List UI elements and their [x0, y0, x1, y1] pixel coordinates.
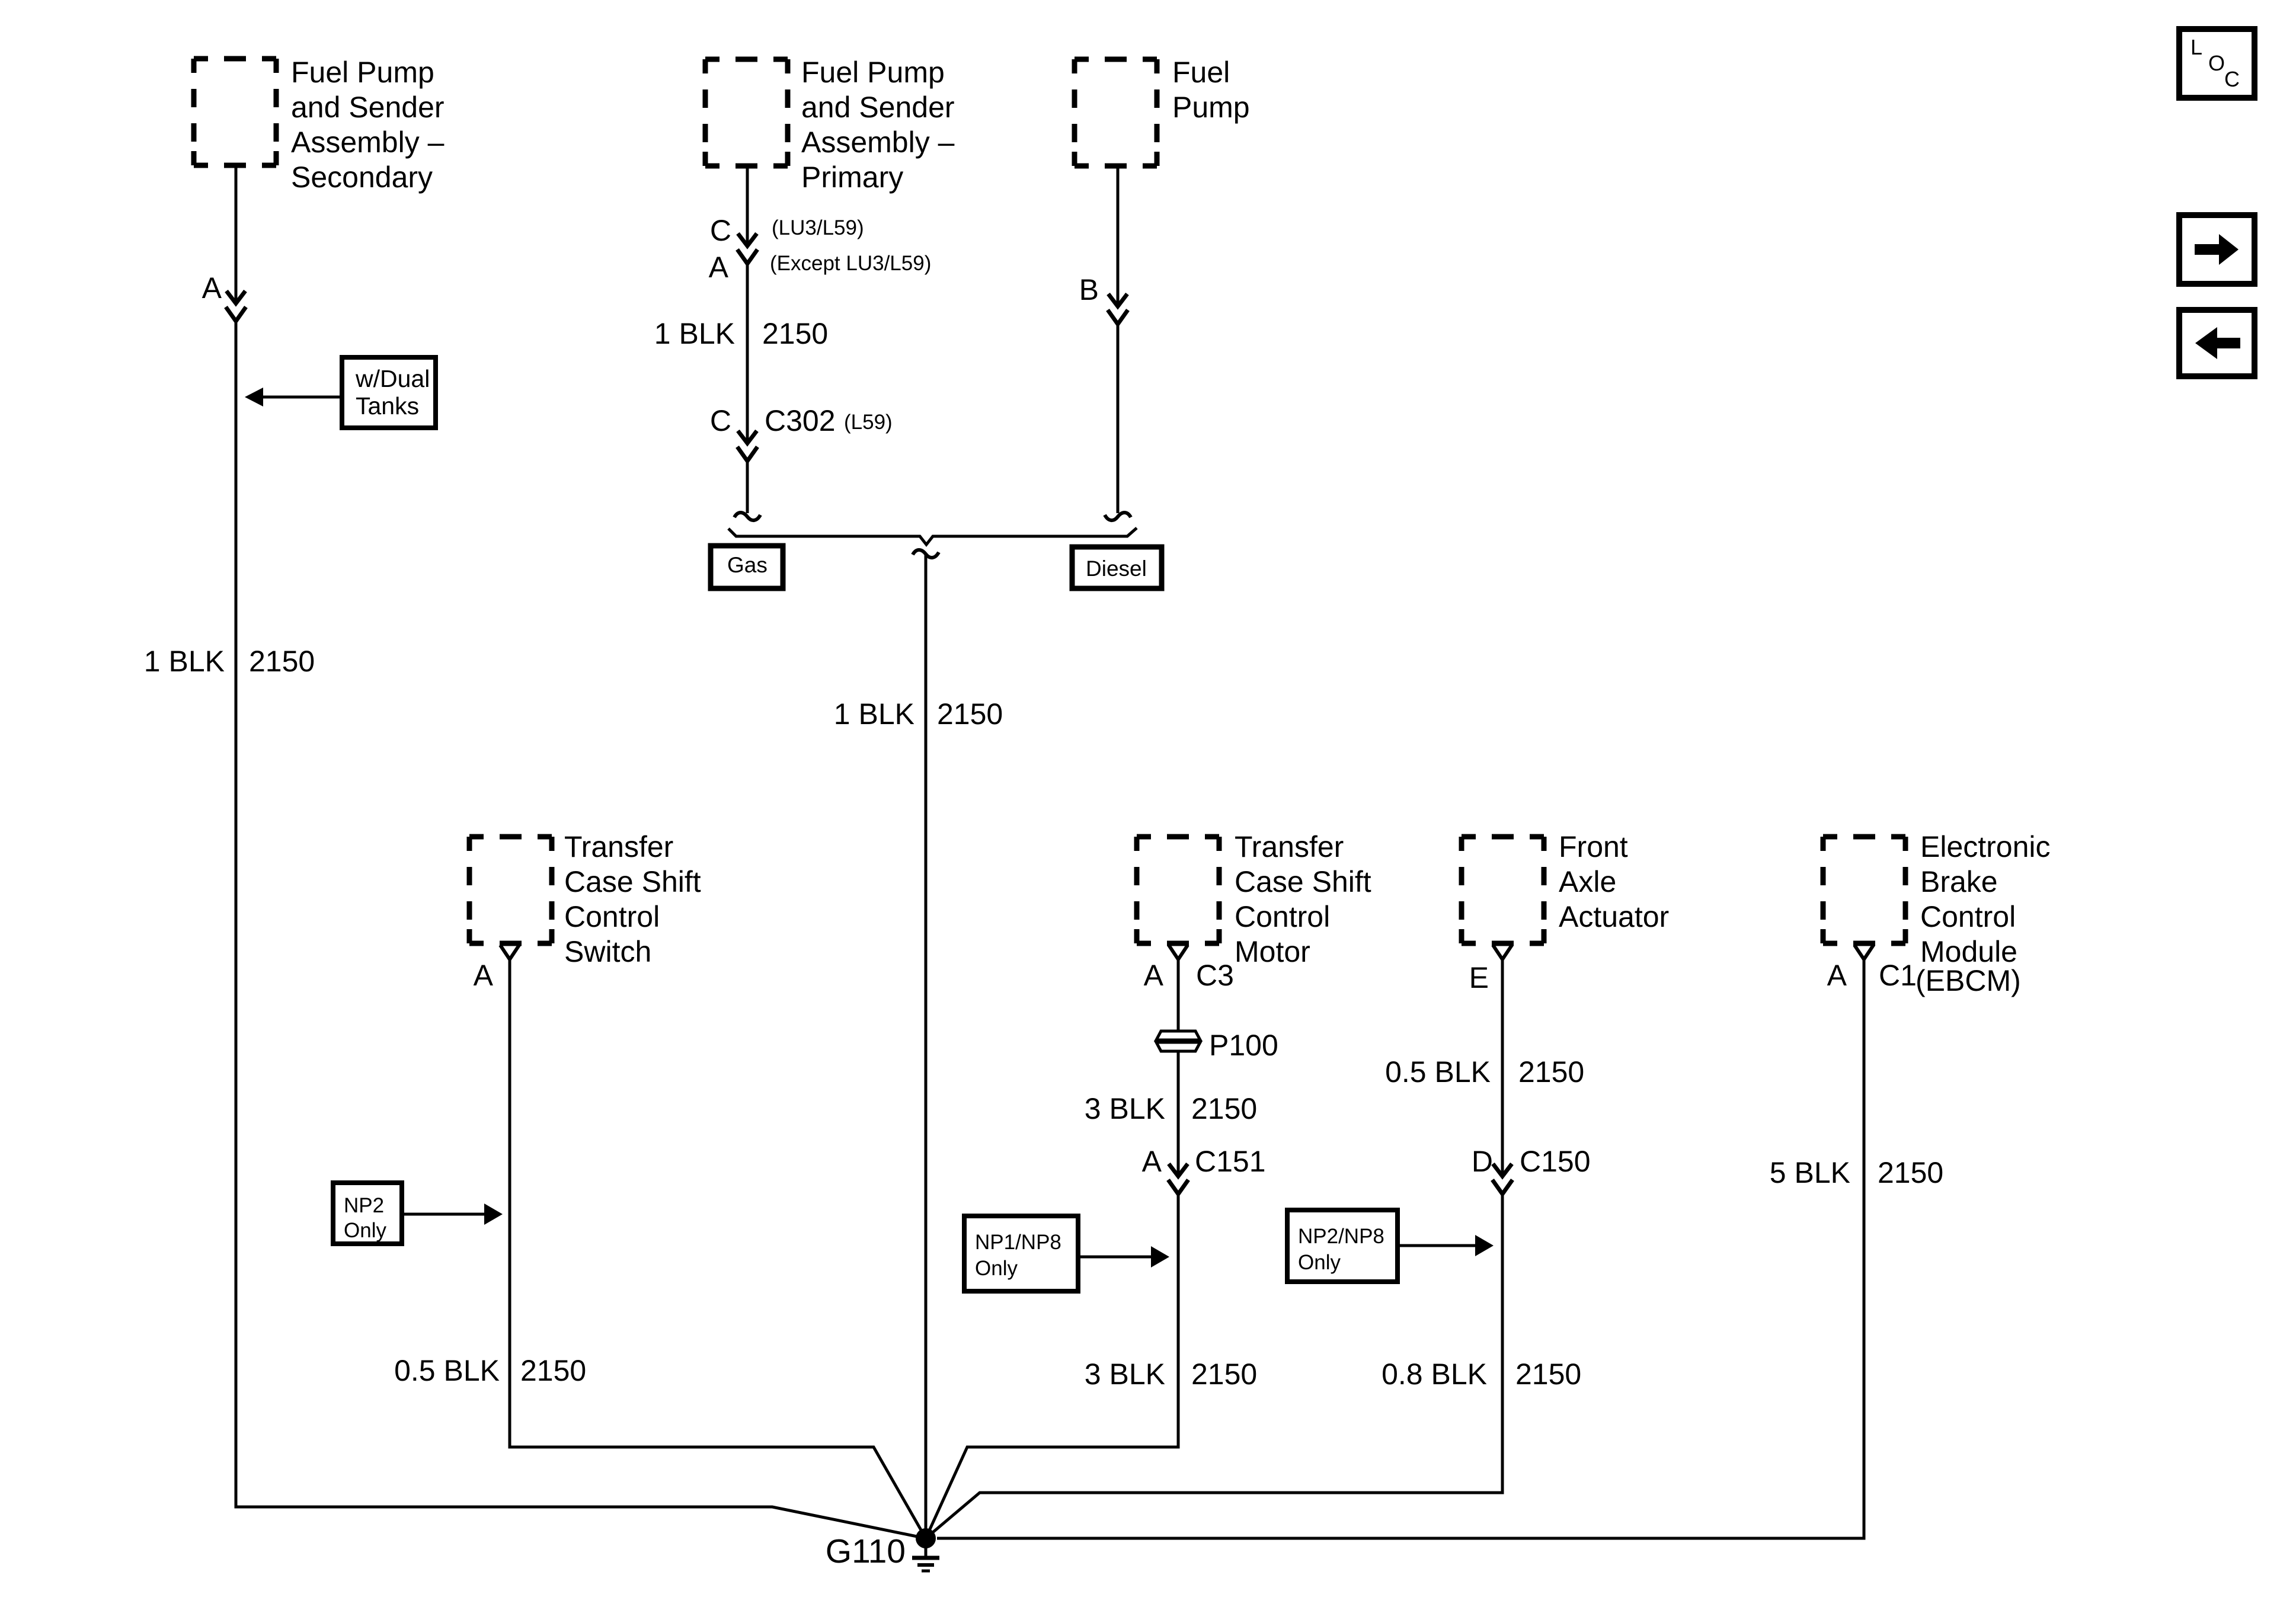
- svg-text:Assembly –: Assembly –: [291, 126, 445, 159]
- svg-text:Front: Front: [1559, 830, 1628, 863]
- svg-text:0.5 BLK: 0.5 BLK: [394, 1354, 500, 1387]
- svg-text:Tanks: Tanks: [356, 392, 419, 420]
- svg-text:A: A: [474, 959, 494, 992]
- svg-text:(LU3/L59): (LU3/L59): [772, 216, 864, 239]
- svg-text:2150: 2150: [762, 317, 828, 350]
- svg-text:Gas: Gas: [727, 553, 768, 577]
- svg-text:2150: 2150: [1518, 1055, 1584, 1089]
- svg-text:Brake: Brake: [1920, 865, 1998, 898]
- svg-text:and Sender: and Sender: [291, 91, 445, 124]
- svg-text:2150: 2150: [1191, 1092, 1257, 1125]
- svg-text:NP2/NP8: NP2/NP8: [1298, 1225, 1384, 1248]
- svg-text:and Sender: and Sender: [801, 91, 955, 124]
- svg-text:A: A: [1827, 959, 1847, 992]
- svg-text:C: C: [2224, 67, 2240, 91]
- svg-text:O: O: [2208, 51, 2225, 75]
- svg-text:C: C: [710, 404, 731, 437]
- svg-text:Pump: Pump: [1172, 91, 1250, 124]
- svg-text:(L59): (L59): [844, 411, 893, 434]
- svg-text:E: E: [1469, 961, 1489, 994]
- svg-text:Fuel Pump: Fuel Pump: [801, 56, 945, 89]
- svg-text:(EBCM): (EBCM): [1916, 964, 2021, 997]
- svg-text:Axle: Axle: [1559, 865, 1616, 898]
- svg-text:Motor: Motor: [1235, 935, 1310, 968]
- svg-text:1 BLK: 1 BLK: [144, 645, 225, 678]
- svg-text:Assembly –: Assembly –: [801, 126, 955, 159]
- svg-text:0.5 BLK: 0.5 BLK: [1385, 1055, 1491, 1089]
- svg-text:Transfer: Transfer: [564, 830, 673, 863]
- svg-text:NP2: NP2: [344, 1194, 384, 1217]
- svg-text:Fuel Pump: Fuel Pump: [291, 56, 434, 89]
- svg-text:P100: P100: [1209, 1029, 1278, 1062]
- svg-text:Only: Only: [975, 1257, 1018, 1280]
- svg-text:2150: 2150: [1515, 1358, 1581, 1391]
- svg-text:1 BLK: 1 BLK: [654, 317, 735, 350]
- svg-text:Diesel: Diesel: [1086, 556, 1147, 581]
- svg-text:2150: 2150: [520, 1354, 586, 1387]
- svg-text:A: A: [1142, 1145, 1162, 1178]
- svg-text:B: B: [1079, 273, 1099, 306]
- svg-text:C: C: [710, 214, 731, 247]
- svg-text:L: L: [2191, 35, 2202, 59]
- svg-text:Case Shift: Case Shift: [1235, 865, 1371, 898]
- svg-text:2150: 2150: [249, 645, 315, 678]
- svg-text:Module: Module: [1920, 935, 2017, 968]
- svg-text:NP1/NP8: NP1/NP8: [975, 1231, 1061, 1254]
- svg-text:C1: C1: [1879, 959, 1917, 992]
- svg-text:C3: C3: [1196, 959, 1234, 992]
- svg-text:w/Dual: w/Dual: [355, 365, 430, 392]
- svg-text:Only: Only: [1298, 1251, 1341, 1274]
- svg-text:D: D: [1472, 1145, 1493, 1178]
- svg-text:3 BLK: 3 BLK: [1085, 1092, 1165, 1125]
- svg-text:Only: Only: [344, 1219, 386, 1242]
- svg-text:Transfer: Transfer: [1235, 830, 1344, 863]
- svg-text:Case Shift: Case Shift: [564, 865, 701, 898]
- svg-text:3 BLK: 3 BLK: [1085, 1358, 1165, 1391]
- svg-text:2150: 2150: [1191, 1358, 1257, 1391]
- svg-text:A: A: [709, 251, 729, 284]
- svg-text:2150: 2150: [1878, 1156, 1943, 1189]
- svg-text:Electronic: Electronic: [1920, 830, 2051, 863]
- svg-text:G110: G110: [826, 1532, 906, 1570]
- svg-text:5 BLK: 5 BLK: [1770, 1156, 1850, 1189]
- svg-text:A: A: [202, 271, 222, 305]
- svg-text:(Except LU3/L59): (Except LU3/L59): [770, 252, 931, 275]
- svg-text:Secondary: Secondary: [291, 161, 433, 194]
- svg-text:C151: C151: [1195, 1145, 1266, 1178]
- svg-text:Control: Control: [1235, 900, 1330, 933]
- svg-text:Switch: Switch: [564, 935, 651, 968]
- svg-text:Control: Control: [564, 900, 660, 933]
- svg-text:1 BLK: 1 BLK: [834, 697, 914, 731]
- svg-text:2150: 2150: [937, 697, 1003, 731]
- svg-text:Primary: Primary: [801, 161, 903, 194]
- svg-text:Actuator: Actuator: [1559, 900, 1669, 933]
- svg-text:C302: C302: [765, 404, 836, 437]
- svg-text:C150: C150: [1520, 1145, 1591, 1178]
- svg-text:A: A: [1144, 959, 1164, 992]
- svg-text:Control: Control: [1920, 900, 2016, 933]
- svg-text:0.8 BLK: 0.8 BLK: [1382, 1358, 1487, 1391]
- svg-text:Fuel: Fuel: [1172, 56, 1230, 89]
